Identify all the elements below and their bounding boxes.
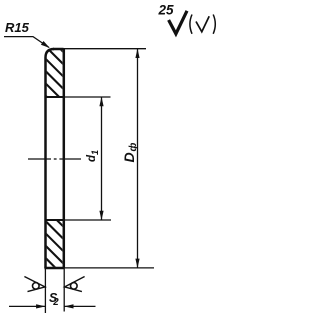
disc top face	[53, 48, 64, 51]
top face extension line	[64, 48, 146, 50]
label D phi	[121, 143, 139, 163]
S2 dimension line left segment	[9, 305, 45, 307]
bore bottom extension line	[64, 219, 112, 221]
hatching bottom section	[40, 203, 80, 292]
parenthesis close	[213, 15, 215, 34]
bottom face extension line	[65, 267, 154, 269]
roughness check mark	[169, 11, 187, 34]
arrowhead S2 left	[36, 304, 46, 308]
dimension line D	[137, 49, 139, 268]
leader arrowhead R15	[41, 41, 50, 48]
disc bottom face	[44, 267, 64, 270]
arrowhead S2 right	[64, 304, 74, 308]
S2 extension line left	[44, 268, 46, 313]
arrowhead d1 bottom	[99, 211, 103, 221]
bore top edge	[46, 96, 64, 98]
svg-text:R15: R15	[5, 20, 30, 35]
svg-text:1: 1	[90, 150, 100, 155]
svg-text:D: D	[121, 152, 137, 162]
roughness symbol left	[24, 277, 45, 292]
bore bottom edge	[46, 219, 64, 221]
label S2	[49, 291, 59, 308]
disc left edge with R15 corner arc	[46, 49, 55, 268]
leader line R15	[4, 37, 49, 48]
disc right edge	[63, 48, 66, 268]
arrowhead d1 top	[99, 97, 103, 107]
S2 extension line right	[63, 268, 65, 312]
roughness symbol right	[65, 277, 85, 292]
arrowhead D top	[135, 49, 139, 59]
parenthesis open	[190, 15, 192, 34]
S2 dimension line right segment	[65, 305, 96, 307]
arrowhead D bottom	[135, 259, 139, 269]
label d1	[86, 150, 100, 162]
hatching top section	[40, 29, 80, 131]
svg-text:2: 2	[52, 297, 59, 308]
centerline	[28, 158, 81, 160]
roughness check mark in parentheses	[196, 16, 209, 32]
dimension line d1	[101, 97, 103, 220]
svg-text:ф: ф	[127, 143, 139, 152]
bore top extension line	[64, 96, 111, 98]
svg-text:25: 25	[158, 3, 175, 18]
